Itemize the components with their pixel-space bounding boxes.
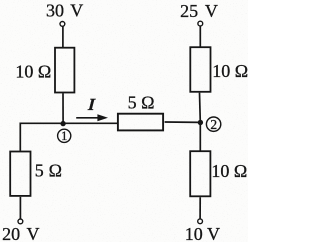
svg-text:1: 1 xyxy=(61,129,67,143)
svg-text:30 V: 30 V xyxy=(46,1,83,21)
wire R2 to node 2 xyxy=(199,93,202,123)
terminal 10V xyxy=(198,219,203,224)
svg-text:10 Ω: 10 Ω xyxy=(15,61,51,81)
svg-text:20 V: 20 V xyxy=(2,224,39,242)
terminal 30V xyxy=(60,22,65,27)
node label 2 xyxy=(206,117,220,131)
resistor R3 5ohm bottom-left xyxy=(10,152,30,196)
svg-text:5 Ω: 5 Ω xyxy=(128,93,155,113)
resistor R2 10ohm top-right xyxy=(190,47,210,92)
resistor R4 10ohm bottom-right xyxy=(190,151,210,196)
current arrow xyxy=(76,117,98,119)
junction dot node 1 xyxy=(60,121,65,126)
wire node1 horizontal and left corner down xyxy=(20,123,117,151)
wire 30V terminal to R1 xyxy=(62,26,64,47)
terminal 25V xyxy=(198,21,203,26)
wire R5 to node 2 xyxy=(165,121,201,123)
wire R1 to node 1 xyxy=(62,93,64,123)
svg-text:2: 2 xyxy=(210,117,217,132)
resistor R1 10ohm top-left xyxy=(55,48,74,93)
wire R4 to 10V terminal xyxy=(199,197,201,219)
resistor R5 5ohm middle xyxy=(118,114,163,131)
wire 25V terminal to R2 xyxy=(199,26,201,47)
wire node 2 to R4 xyxy=(199,122,201,151)
svg-text:10 V: 10 V xyxy=(185,224,220,242)
terminal 20V xyxy=(18,219,23,224)
wire R3 to 20V terminal xyxy=(19,197,21,219)
node label 1 xyxy=(58,129,71,142)
svg-text:10 Ω: 10 Ω xyxy=(211,161,247,181)
junction dot node 2 xyxy=(198,120,203,125)
svg-text:25 V: 25 V xyxy=(180,1,218,21)
svg-text:10 Ω: 10 Ω xyxy=(212,61,248,81)
svg-text:5 Ω: 5 Ω xyxy=(35,160,62,180)
